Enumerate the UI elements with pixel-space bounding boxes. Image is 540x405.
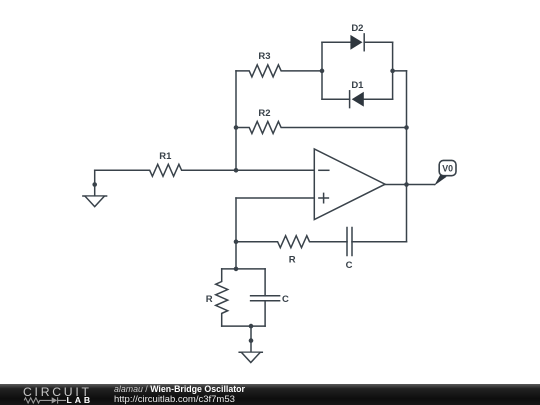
svg-text:C: C [346, 260, 353, 271]
svg-text:D2: D2 [351, 23, 363, 34]
svg-text:R3: R3 [258, 51, 270, 62]
svg-text:R1: R1 [159, 151, 172, 162]
svg-text:R: R [206, 294, 213, 305]
svg-text:R2: R2 [258, 108, 270, 119]
svg-text:R: R [289, 255, 296, 266]
svg-text:D1: D1 [351, 80, 364, 91]
svg-text:C: C [282, 294, 289, 305]
svg-text:V0: V0 [442, 164, 453, 174]
